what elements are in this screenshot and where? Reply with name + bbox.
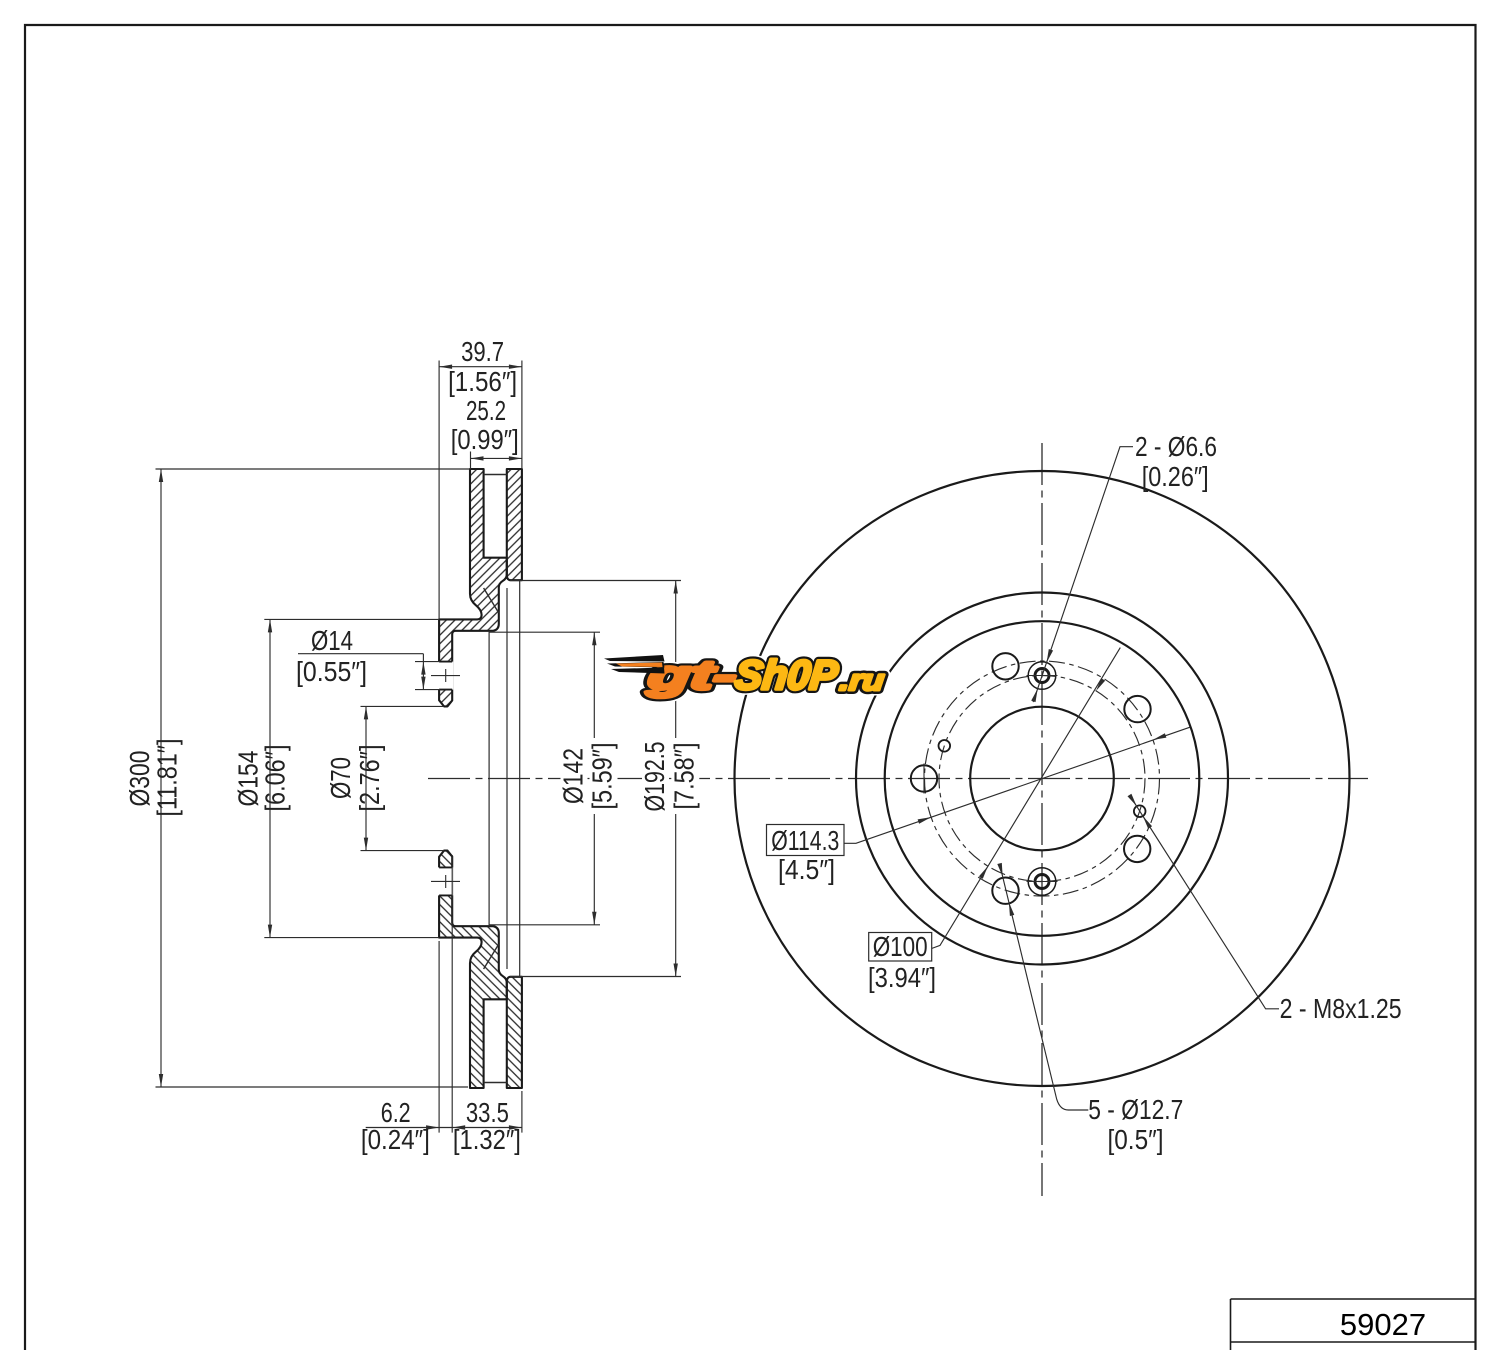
- svg-text:25.2: 25.2: [466, 395, 506, 426]
- svg-text:[1.32″]: [1.32″]: [453, 1124, 521, 1155]
- svg-text:Ø300: Ø300: [124, 751, 155, 807]
- svg-text:[0.5″]: [0.5″]: [1108, 1124, 1164, 1155]
- main horizontal centerline: [428, 778, 1368, 780]
- svg-text:39.7: 39.7: [461, 336, 504, 367]
- dim O154 ext: [264, 619, 439, 937]
- svg-text:2 - M8x1.25: 2 - M8x1.25: [1280, 993, 1402, 1024]
- svg-text:[0.55″]: [0.55″]: [296, 656, 367, 687]
- hatched disc body (top half): left plate + S-bend + flange + hat wall: [431, 469, 522, 1088]
- hole axis ticks: [431, 669, 460, 888]
- 2 countersunk O6.6 holes (double circles): [1028, 662, 1056, 896]
- right (inboard) plate top half: [507, 469, 522, 580]
- friction band inner edge: [856, 593, 1228, 965]
- 25.2: [471, 456, 484, 460]
- O70: [364, 706, 368, 719]
- colored fill text: [644, 652, 887, 698]
- svg-text:[3.94″]: [3.94″]: [868, 962, 936, 993]
- svg-text:[4.5″]: [4.5″]: [778, 854, 835, 885]
- disc outer edge O300: [735, 471, 1350, 1086]
- svg-text:Ø114.3: Ø114.3: [771, 825, 839, 856]
- 2 small M8 holes: [939, 740, 1146, 817]
- O114.3 dim line: [844, 727, 1190, 843]
- 2-M8x1.25 leader: [1130, 796, 1279, 1009]
- svg-text:Ø14: Ø14: [311, 625, 353, 656]
- O142: [592, 632, 596, 645]
- 5 lug holes O12.7: [911, 653, 1151, 904]
- dim O142: [489, 632, 600, 925]
- leader / dim lines of front view: [844, 447, 1279, 1110]
- svg-text:Ø70: Ø70: [325, 757, 356, 799]
- black outline text: [644, 652, 887, 698]
- svg-text:5 - Ø12.7: 5 - Ø12.7: [1088, 1094, 1183, 1125]
- 2-O6.6 opposing pair: [1047, 649, 1054, 663]
- dim O300 ext: [156, 469, 471, 1087]
- svg-text:Ø192.5: Ø192.5: [639, 742, 670, 812]
- svg-text:[0.26″]: [0.26″]: [1142, 461, 1209, 492]
- svg-text:.ru: .ru: [838, 665, 886, 697]
- boxed labels: [767, 825, 932, 962]
- mirrored bottom half: [439, 851, 507, 1088]
- center bore O70: [970, 707, 1114, 851]
- hat outer edge O154: [885, 621, 1200, 936]
- dim O70 ext: [361, 706, 445, 850]
- interior visible edges (drum bore): [489, 581, 520, 977]
- svg-text:[0.99″]: [0.99″]: [451, 424, 519, 455]
- bolt circles (dash-dot): [925, 661, 1160, 896]
- svg-text:59027: 59027: [1340, 1307, 1426, 1342]
- ticks through countersunk holes: [924, 676, 1058, 882]
- white halo: [644, 652, 887, 698]
- dim 25.2: [471, 452, 522, 470]
- O114.3 : inward pair on r117.5: [918, 817, 932, 824]
- O192.5: [674, 581, 678, 594]
- 2-O6.6 leader: [1033, 447, 1133, 702]
- 5-O12.7 leader: [1000, 865, 1089, 1110]
- front view arrowheads: [918, 649, 1167, 916]
- 33.5 right arrow: [509, 1125, 522, 1129]
- dim 6.2 / 33.5: [366, 855, 522, 1133]
- O154: [268, 619, 272, 632]
- svg-text:Ø142: Ø142: [558, 748, 589, 804]
- title block: [1231, 1299, 1476, 1350]
- vane slot edge lines: [484, 475, 507, 1083]
- svg-text:2 - Ø6.6: 2 - Ø6.6: [1135, 431, 1217, 462]
- O14: [421, 662, 425, 675]
- Ø14 bolt hole gaps in hat wall: [438, 662, 453, 690]
- 5-O12.7 pair: [1009, 902, 1014, 916]
- O100 : inward pair on r103: [979, 866, 988, 879]
- dim 39.7: [439, 361, 522, 620]
- svg-text:Sh0P: Sh0P: [733, 652, 840, 698]
- O100 dim line: [932, 648, 1121, 949]
- svg-text:[7.58″]: [7.58″]: [668, 743, 699, 810]
- dim O14: [298, 654, 440, 690]
- O300: [159, 469, 163, 482]
- svg-text:[1.56″]: [1.56″]: [448, 366, 517, 397]
- M8 pair: [1143, 816, 1152, 829]
- 39.7: [439, 365, 452, 369]
- dim O192.5: [510, 581, 681, 977]
- svg-text:[6.06″]: [6.06″]: [260, 745, 291, 812]
- svg-text:[11.81″]: [11.81″]: [152, 739, 183, 817]
- svg-text:[0.24″]: [0.24″]: [361, 1124, 430, 1155]
- svg-text:[5.59″]: [5.59″]: [587, 743, 618, 810]
- svg-text:[2.76″]: [2.76″]: [354, 745, 385, 812]
- speed spikes: [604, 655, 665, 674]
- front view vertical centerline: [1041, 443, 1043, 1196]
- 6.2 arrows outside: [426, 1125, 439, 1129]
- arrowheads for section dims: [159, 365, 678, 1130]
- svg-text:Ø100: Ø100: [873, 931, 928, 962]
